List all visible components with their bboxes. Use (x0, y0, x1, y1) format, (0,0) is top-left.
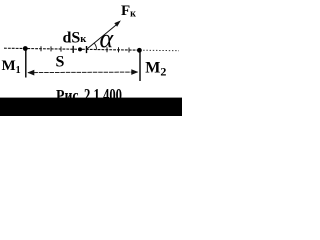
black band at bottom (0, 98, 182, 116)
svg-text:S: S (56, 54, 65, 71)
element dS: right bar (86, 46, 88, 53)
bar at M1 (25, 49, 27, 78)
dimension line S (dashed, double arrow) (28, 71, 138, 74)
wire: main horizontal axis (dashed) (4, 48, 140, 50)
angle arc (94, 43, 97, 50)
wire: axis tail right of M2 (fine dotted) (140, 49, 179, 52)
node M1 (dot on axis) (23, 46, 28, 51)
element dS: center dot (78, 47, 82, 51)
tick marks on axis (left of element) (40, 46, 42, 51)
bar at M2 (139, 50, 141, 81)
node M2 (dot on axis) (137, 48, 142, 53)
svg-text:α: α (100, 24, 115, 53)
vector F (force arrow) (87, 23, 119, 49)
element dS: left bar (72, 46, 74, 53)
tick marks on axis (right of element) (106, 47, 108, 52)
